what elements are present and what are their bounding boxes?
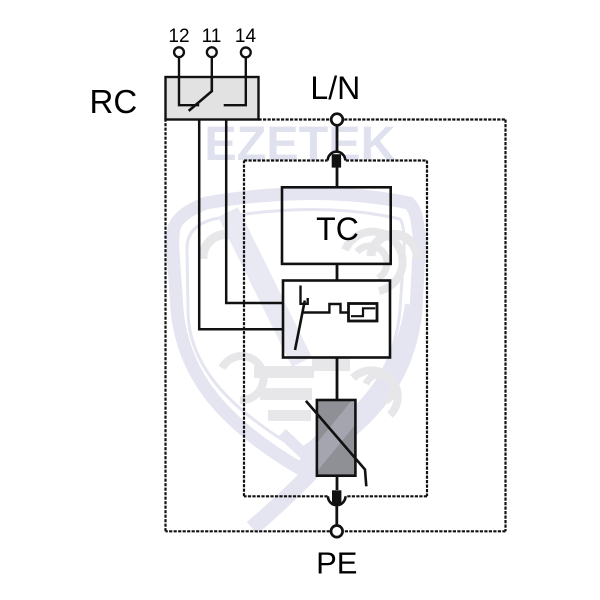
varistor diagonal stroke — [306, 401, 366, 486]
terminal circle 11 — [207, 47, 217, 57]
svg-text:L/N: L/N — [310, 70, 360, 106]
plug-in contact bottom (pin) — [332, 490, 341, 505]
disconnector switch blade — [295, 301, 305, 351]
watermark stripe bars — [312, 358, 350, 371]
plug-in contact top (arch) — [328, 152, 346, 161]
RC contact 12 L-lead — [179, 77, 199, 105]
wire plug to PE — [335, 505, 338, 525]
terminal circle 12 — [174, 47, 184, 57]
watermark inner ribbon — [228, 212, 302, 362]
svg-text:11: 11 — [202, 26, 222, 47]
watermark shield outer band — [173, 194, 420, 469]
thermal control unit TC box — [282, 187, 391, 264]
wire plug to TC — [336, 167, 339, 187]
svg-text:RC: RC — [90, 83, 138, 120]
wire L/N to top plug contact — [336, 126, 339, 156]
wire varistor to bottom plug — [336, 476, 339, 490]
watermark left horseshoe — [203, 234, 249, 259]
svg-text:PE: PE — [316, 546, 357, 581]
thermal disconnector box — [283, 281, 390, 358]
svg-text:EZETEK: EZETEK — [204, 117, 395, 171]
terminal circle 14 — [241, 48, 251, 58]
terminal stem 12 — [178, 57, 180, 77]
mechanical linkage — [302, 304, 349, 313]
watermark swoosh — [252, 305, 413, 528]
RC contact 14 L-lead — [224, 77, 246, 105]
svg-text:TC: TC — [316, 211, 359, 247]
outer enclosure boundary (dashed) — [166, 120, 506, 532]
watermark lower-left curl — [222, 356, 264, 400]
wire disconnector to varistor — [336, 358, 339, 401]
watermark lower-right rings — [353, 370, 398, 415]
inner module boundary (dashed) — [244, 161, 427, 497]
disconnector fixed contact — [301, 286, 308, 304]
node L/N terminal — [331, 114, 343, 126]
wire TC to disconnector — [336, 264, 339, 281]
status indicator box — [349, 304, 378, 322]
wire RC to disconnector (right) — [226, 120, 283, 304]
RC contact common 11 blade — [189, 77, 212, 111]
svg-text:14: 14 — [235, 26, 257, 47]
watermark inner chevron — [282, 432, 328, 454]
watermark upper-right rings — [345, 232, 403, 291]
wire RC to disconnector (left) — [199, 120, 283, 330]
plug-in contact top (pin) — [332, 154, 341, 167]
varistor body — [317, 400, 356, 476]
node PE terminal — [331, 526, 343, 538]
watermark shield inner line — [187, 210, 404, 451]
watermark right horseshoe — [371, 234, 417, 259]
terminal stem 14 — [245, 57, 247, 77]
status indicator step — [351, 308, 375, 316]
svg-text:12: 12 — [168, 26, 189, 47]
relay contact block RC (box) — [166, 77, 259, 120]
terminal stem 11 — [211, 57, 213, 77]
watermark EZETEK logo (background) — [173, 117, 420, 528]
plug-in contact bottom (arch) — [328, 496, 346, 505]
